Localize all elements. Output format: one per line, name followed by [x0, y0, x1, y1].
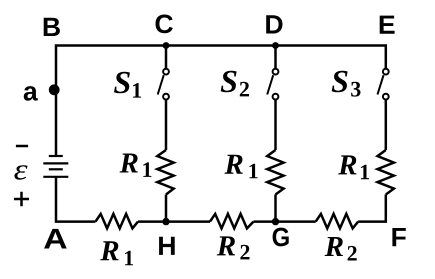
switch S3 blade	[378, 75, 384, 94]
switch S2 contact circles	[273, 69, 279, 100]
node H junction dot	[162, 218, 169, 225]
wire bottom rail to corner F up to resistor	[358, 195, 386, 222]
node F label	[392, 228, 405, 246]
label R1 vertical branch 3	[338, 155, 369, 179]
node a junction dot	[49, 84, 60, 95]
battery plate short middle	[49, 168, 63, 170]
battery plate long	[43, 162, 68, 164]
battery plate short top	[49, 155, 63, 157]
node G junction dot	[272, 218, 279, 225]
node E label	[380, 16, 395, 34]
wire node C to switch S1	[165, 46, 168, 69]
resistor R2 horizontal G-F	[316, 214, 359, 229]
label S3 switch	[332, 71, 361, 97]
battery EMF source	[43, 156, 68, 177]
label R1 vertical branch 1	[120, 154, 152, 177]
resistor R1 vertical branch D-G	[267, 150, 283, 195]
switch S1 contact circles	[163, 69, 169, 100]
resistor R2 horizontal H-G	[210, 214, 254, 229]
node C label	[156, 15, 173, 34]
wire battery bottom to corner A and to resistor start	[56, 177, 96, 222]
label S1 switch	[114, 72, 141, 98]
switch S3 contact circles	[383, 69, 389, 100]
wire top rail B-C-D-E with left drop to battery and right drop to switch S3	[56, 46, 386, 157]
node A label	[44, 229, 67, 249]
node C junction dot	[163, 42, 170, 49]
node G label	[273, 228, 289, 247]
switch S1 blade	[158, 75, 164, 94]
minus terminal sign	[16, 145, 28, 148]
resistor R1 vertical branch C-H	[157, 150, 173, 195]
resistor R1 horizontal A-H	[96, 214, 139, 229]
wire bottom rail G segment	[254, 220, 316, 223]
node D junction dot	[272, 42, 279, 49]
wire switch S1 to resistor	[165, 99, 168, 150]
node B label	[44, 18, 60, 36]
switch S2 blade	[267, 75, 273, 94]
label EMF epsilon	[14, 165, 27, 179]
wire bottom rail H segment	[138, 220, 210, 223]
plus terminal sign	[14, 192, 29, 206]
wire switch S2 to resistor	[274, 99, 277, 150]
node H label	[159, 237, 175, 255]
label R1 bottom A-H	[100, 241, 133, 265]
label R2 bottom H-G	[217, 236, 250, 259]
wire resistor to node G	[274, 195, 277, 222]
label S2 switch	[221, 71, 249, 97]
node a label	[24, 86, 38, 101]
node D label	[266, 15, 282, 33]
wire node D to switch S2	[274, 46, 277, 69]
label R2 bottom G-F	[325, 237, 357, 261]
battery plate long bottom	[43, 176, 68, 178]
label R1 vertical branch 2	[225, 155, 258, 179]
wire resistor to node H	[165, 195, 168, 222]
wire switch S3 to resistor	[385, 99, 388, 150]
resistor R1 vertical branch E-F	[378, 150, 394, 195]
